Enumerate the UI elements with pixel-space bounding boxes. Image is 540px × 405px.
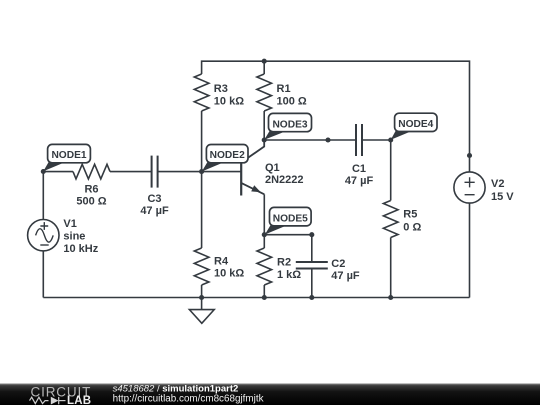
svg-text:NODE5: NODE5 xyxy=(273,213,308,224)
svg-text:C3: C3 xyxy=(147,193,161,205)
svg-text:15 V: 15 V xyxy=(491,191,514,203)
svg-text:1 kΩ: 1 kΩ xyxy=(277,269,301,281)
svg-text:10 kΩ: 10 kΩ xyxy=(214,95,244,107)
svg-text:R3: R3 xyxy=(214,83,228,95)
svg-text:47 µF: 47 µF xyxy=(331,270,360,282)
svg-text:LAB: LAB xyxy=(67,395,91,405)
svg-text:http://circuitlab.com/cm8c68gj: http://circuitlab.com/cm8c68gjfmjtk xyxy=(113,393,264,404)
svg-text:R2: R2 xyxy=(277,257,291,269)
svg-text:R4: R4 xyxy=(214,255,229,267)
svg-text:0 Ω: 0 Ω xyxy=(403,221,421,233)
svg-text:47 µF: 47 µF xyxy=(140,205,169,217)
svg-text:V2: V2 xyxy=(491,178,504,190)
svg-text:Q1: Q1 xyxy=(265,162,280,174)
svg-text:2N2222: 2N2222 xyxy=(265,174,304,186)
svg-text:10 kΩ: 10 kΩ xyxy=(214,268,244,280)
svg-text:NODE3: NODE3 xyxy=(272,119,307,130)
svg-text:10 kHz: 10 kHz xyxy=(63,243,98,255)
svg-text:R5: R5 xyxy=(403,209,417,221)
svg-text:500 Ω: 500 Ω xyxy=(76,196,106,208)
svg-text:NODE4: NODE4 xyxy=(398,119,433,130)
svg-text:NODE1: NODE1 xyxy=(51,150,86,161)
svg-text:R6: R6 xyxy=(84,183,98,195)
svg-text:R1: R1 xyxy=(277,83,291,95)
svg-text:47 µF: 47 µF xyxy=(345,175,374,187)
svg-text:100 Ω: 100 Ω xyxy=(277,95,307,107)
svg-text:C2: C2 xyxy=(331,258,345,270)
svg-text:V1: V1 xyxy=(63,218,76,230)
svg-text:sine: sine xyxy=(63,230,85,242)
svg-text:C1: C1 xyxy=(352,163,366,175)
svg-text:NODE2: NODE2 xyxy=(210,150,245,161)
